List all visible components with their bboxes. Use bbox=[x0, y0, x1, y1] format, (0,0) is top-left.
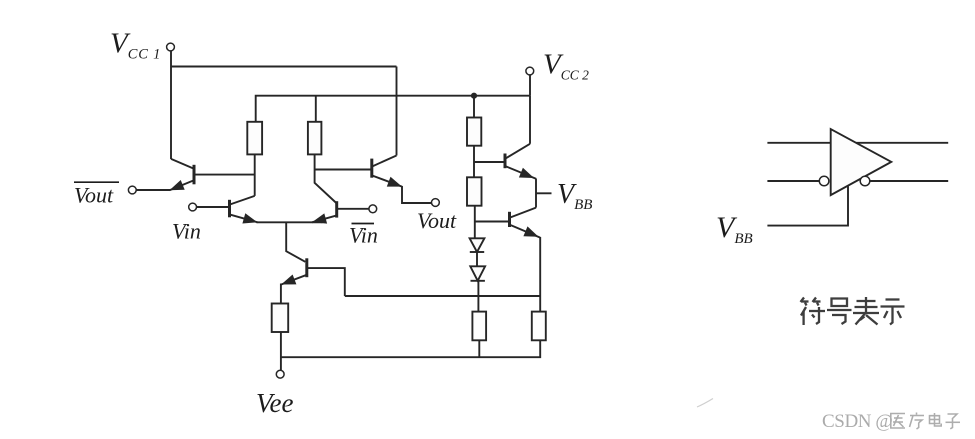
resistor R2 bbox=[308, 122, 322, 155]
wire : Q6 base lead bbox=[474, 161, 504, 163]
wire : R5 to bottom rail bbox=[478, 340, 480, 357]
gate symbol triangle U1 bbox=[831, 129, 892, 195]
wire : Q7 emitter down through bias rail to R6 bbox=[539, 237, 541, 312]
wire : Vin lead bbox=[196, 206, 229, 208]
wire : drop from Vcc1 rail to Q2 collector bbox=[396, 67, 398, 156]
svg-text:VBB: VBB bbox=[557, 179, 592, 213]
wire : junction down to R3 bbox=[473, 96, 475, 118]
output inversion bubble bbox=[860, 176, 870, 186]
resistor R3 (bias divider top) bbox=[467, 118, 481, 146]
svg-text:VBB: VBB bbox=[716, 211, 753, 247]
svg-text:CSDN @: CSDN @ bbox=[822, 411, 893, 432]
wire : symbol input bottom bbox=[767, 180, 819, 182]
transistor Q5 (tail current source) bbox=[281, 258, 307, 284]
resistor R5 bbox=[472, 312, 486, 341]
terminal nVin bbox=[369, 205, 377, 213]
wire : Q6 emitter / Q7 collector node with VBB tap bbox=[535, 179, 537, 208]
svg-text:Vin: Vin bbox=[349, 223, 378, 248]
node A junction dot on Vcc2 rail bbox=[471, 93, 477, 99]
transistor Q1 (output emitter follower, nOUT) bbox=[170, 159, 195, 190]
resistor R6 bbox=[532, 312, 546, 341]
caption text 符号表示 (hand-drawn strokes) bbox=[801, 297, 905, 325]
wire : Vout terminal lead bbox=[402, 186, 432, 203]
wire : bottom rail (Vee) bbox=[281, 340, 540, 357]
svg-text:Vout: Vout bbox=[74, 183, 114, 208]
wire : Vcc2 rail bbox=[256, 96, 530, 122]
svg-text:Vin: Vin bbox=[172, 219, 201, 244]
terminal Vin bbox=[189, 203, 197, 211]
resistor R1 bbox=[247, 122, 262, 155]
terminal Vee bbox=[276, 370, 284, 378]
svg-text:Vout: Vout bbox=[417, 208, 457, 233]
svg-text:VCC 1: VCC 1 bbox=[110, 28, 161, 63]
watermark text 医疗电子 (hand-drawn strokes) bbox=[891, 413, 960, 430]
terminal nVout bbox=[128, 186, 136, 194]
wire : Q7 base lead bbox=[475, 221, 509, 223]
wire : Vcc2 down to Q6 collector bbox=[529, 96, 531, 144]
wire : nVin lead bbox=[337, 208, 370, 210]
resistor R4 (bias divider mid) bbox=[467, 177, 482, 205]
wire : symbol output bottom bbox=[870, 180, 948, 182]
svg-text:VCC 2: VCC 2 bbox=[543, 49, 589, 83]
terminal Vout bbox=[432, 199, 440, 207]
wire : Q5 base bias path bbox=[308, 268, 345, 296]
wire : D2 through bias rail to R5 bbox=[477, 281, 479, 312]
wire : R1 bottom to Q3 collector node bbox=[254, 154, 256, 196]
wire : Vbb connection of symbol bbox=[767, 186, 848, 225]
svg-text:Vee: Vee bbox=[256, 388, 293, 418]
label nVin bbox=[349, 223, 378, 248]
transistor Q6 (Vbb generator upper) bbox=[505, 144, 536, 179]
transistor Q2 (output emitter follower, OUT) bbox=[372, 156, 402, 187]
wire : symbol input top bbox=[767, 142, 830, 144]
wire : D1 to D2 bbox=[476, 252, 478, 266]
wire : Q5 emitter down to R7 bbox=[280, 284, 282, 304]
wire : Vcc1 vertical feed bbox=[170, 51, 172, 160]
wire : bias rail bbox=[345, 295, 540, 297]
wire : Vcc1 top rail bbox=[171, 66, 397, 68]
diode D1 bbox=[470, 238, 485, 252]
wire : Q2 base lead bbox=[315, 169, 371, 171]
transistor Q4 (diff pair right) bbox=[312, 201, 337, 223]
wire : R4 down to diode chain bbox=[474, 206, 476, 239]
resistor R7 (Vee emitter resistor) bbox=[272, 304, 289, 333]
transistor Q7 (Vbb generator lower) bbox=[510, 208, 541, 238]
terminal Vcc2 bbox=[526, 67, 534, 75]
wire : drop rail to R2 top bbox=[315, 96, 317, 122]
wire : nVout terminal lead bbox=[136, 189, 170, 191]
faint stray scan mark bbox=[697, 399, 713, 408]
transistor Q3 (diff pair left) bbox=[230, 196, 258, 224]
wire : R2 bottom to Q4 collector bbox=[315, 154, 337, 203]
wire : tail drop to Q5 bbox=[286, 222, 305, 261]
wire : symbol output top bbox=[856, 142, 948, 144]
label nVout bbox=[74, 182, 119, 207]
wire : Vcc2 terminal stub bbox=[529, 75, 531, 96]
wire : R3 to R4 bbox=[473, 146, 475, 178]
terminal Vcc1 bbox=[167, 43, 175, 51]
diode D2 bbox=[470, 266, 485, 281]
input inversion bubble bbox=[819, 176, 829, 186]
wire : R7 to Vee terminal bbox=[280, 332, 282, 371]
wire : common emitter rail of diff pair bbox=[257, 221, 323, 223]
wire : Q1 base lead bbox=[195, 174, 255, 176]
